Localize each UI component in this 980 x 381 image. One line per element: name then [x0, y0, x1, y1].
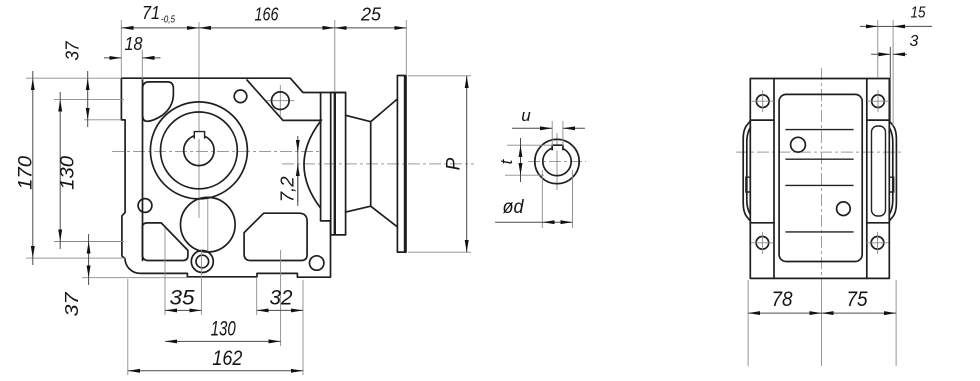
svg-text:25: 25 [360, 5, 382, 25]
svg-text:18: 18 [125, 34, 143, 54]
svg-text:ød: ød [503, 197, 525, 218]
svg-text:-0,5: -0,5 [161, 13, 175, 25]
svg-text:166: 166 [255, 5, 280, 25]
svg-text:32: 32 [270, 287, 293, 310]
svg-text:162: 162 [212, 347, 242, 370]
svg-text:130: 130 [58, 155, 79, 189]
svg-text:37: 37 [63, 41, 83, 61]
svg-text:78: 78 [772, 288, 793, 311]
svg-text:71: 71 [142, 3, 160, 23]
svg-text:7,2: 7,2 [278, 176, 298, 202]
svg-text:15: 15 [911, 5, 926, 22]
svg-text:170: 170 [16, 155, 37, 189]
svg-text:u: u [521, 106, 531, 125]
svg-text:3: 3 [910, 33, 919, 50]
svg-text:37: 37 [62, 291, 82, 316]
svg-text:P: P [444, 157, 465, 170]
svg-text:75: 75 [847, 288, 868, 311]
svg-text:35: 35 [170, 287, 195, 310]
svg-text:130: 130 [211, 318, 236, 341]
